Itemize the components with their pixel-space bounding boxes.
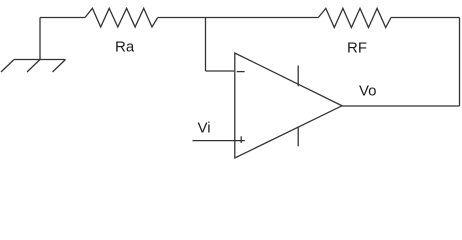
wire — [391, 17, 460, 19]
wire — [206, 70, 235, 72]
resistor Ra — [85, 8, 158, 27]
resistor RF — [318, 8, 391, 27]
wire — [193, 140, 245, 142]
op-amp U1 — [235, 53, 342, 158]
svg-text:Ra: Ra — [115, 38, 135, 55]
power pin V+ — [297, 66, 299, 87]
svg-text:Vi: Vi — [198, 120, 211, 137]
wire — [205, 18, 207, 72]
ground — [1, 60, 66, 73]
wire — [158, 17, 319, 19]
non-inverting input marker + — [240, 136, 242, 143]
wire — [342, 105, 460, 107]
inverting input marker - — [237, 71, 245, 73]
power pin V- — [297, 127, 299, 147]
wire — [459, 18, 461, 107]
svg-text:RF: RF — [347, 40, 367, 57]
wire — [39, 18, 41, 60]
wire — [40, 17, 85, 19]
svg-text:Vo: Vo — [359, 83, 377, 100]
